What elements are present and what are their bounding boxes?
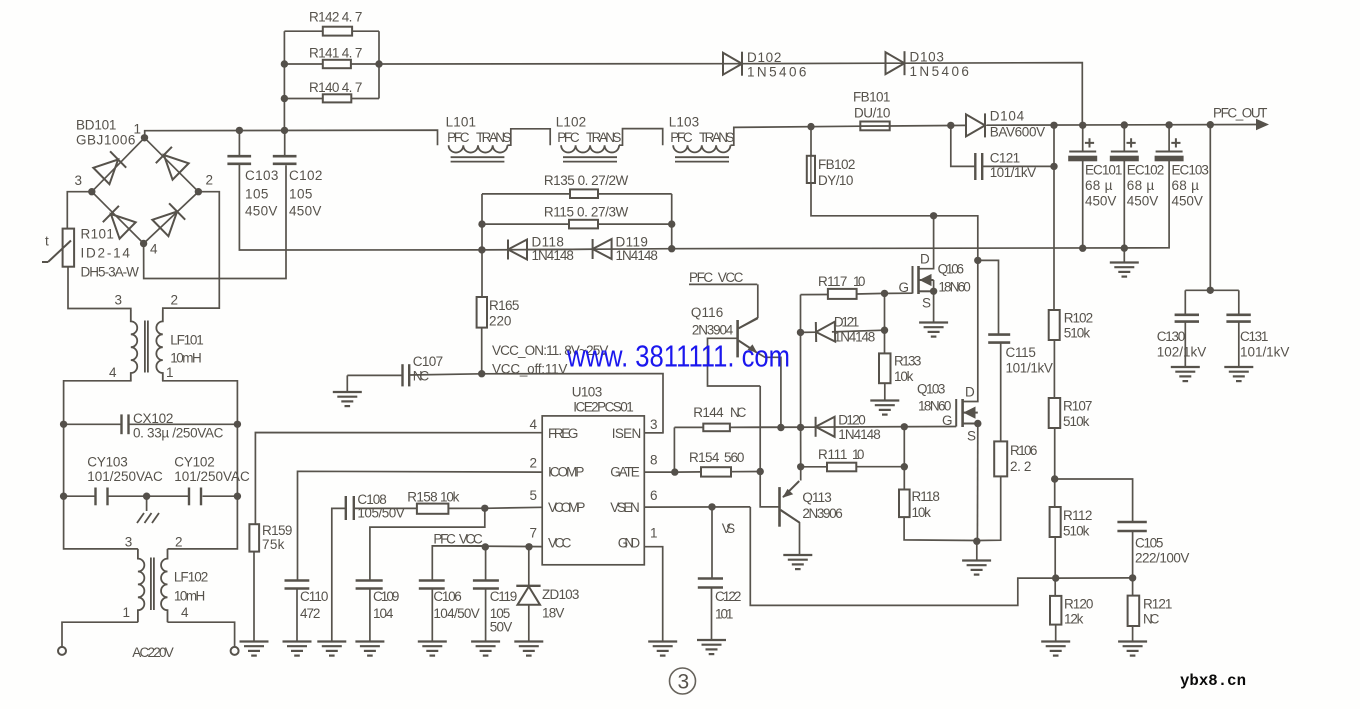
- wire D121 line right: [832, 330, 885, 332]
- capacitor C130: [1175, 313, 1199, 316]
- zener ZD103: [516, 585, 540, 587]
- svg-text:50V: 50V: [490, 620, 513, 635]
- resistor R111: [827, 463, 856, 472]
- junction GATE pin: [671, 468, 678, 475]
- ground C110: [283, 642, 312, 656]
- terminal AC right: [231, 647, 239, 655]
- svg-text:1: 1: [166, 365, 174, 380]
- wire EC102 bottom stem: [1123, 161, 1125, 248]
- wire FREG pin4 line to R159: [255, 433, 542, 525]
- wire GATE pin8 stub: [644, 471, 675, 473]
- resistor R159: [249, 524, 259, 551]
- svg-text:PFC: PFC: [670, 130, 693, 145]
- wire R165 column shunt left rail: [481, 194, 483, 297]
- capacitor C115: [988, 333, 1010, 336]
- wire R121 gnd stem: [1132, 626, 1134, 641]
- svg-text:101: 101: [715, 607, 734, 622]
- wire left rail of R140-R142: [283, 31, 285, 130]
- wire node2 to LF101 pin2: [163, 192, 220, 311]
- svg-text:ID2-14: ID2-14: [81, 246, 131, 261]
- wire R135 line: [482, 193, 570, 195]
- svg-text:ZD103: ZD103: [542, 587, 580, 602]
- junction shunt right D119: [668, 245, 675, 252]
- svg-text:C109: C109: [373, 589, 400, 604]
- capacitor C108: [345, 496, 347, 520]
- svg-text:TRANS: TRANS: [476, 130, 512, 145]
- diode D103 1N5406: [886, 51, 905, 75]
- svg-text:R165: R165: [489, 298, 520, 313]
- junction C115 Q103 drain: [974, 257, 981, 264]
- svg-text:U103: U103: [572, 385, 603, 400]
- svg-text:1N5406: 1N5406: [910, 64, 970, 79]
- svg-text:ICOMP: ICOMP: [548, 465, 585, 480]
- junction D121 left: [797, 329, 804, 336]
- resistor R102: [1049, 310, 1060, 340]
- svg-text:1: 1: [134, 122, 142, 137]
- svg-text:Q103: Q103: [917, 382, 946, 397]
- svg-text:7: 7: [530, 526, 538, 541]
- junction FB102 rail: [807, 123, 814, 130]
- svg-text:GND: GND: [618, 536, 641, 551]
- wire GND pin1 to ground: [644, 547, 662, 641]
- capacitor C131: [1226, 313, 1250, 316]
- wire D118 D119 line segments: [527, 248, 593, 250]
- wire R144 right to D120 line to Q103 gate: [730, 426, 956, 429]
- wire Q113 collector to gnd: [781, 511, 799, 554]
- svg-text:EC102: EC102: [1127, 163, 1165, 178]
- capacitor C103: [227, 155, 251, 158]
- wire rail L102 to L103 step: [619, 129, 663, 146]
- electrolytic EC102: [1111, 151, 1138, 153]
- svg-text:R158: R158: [407, 490, 438, 505]
- wire rail L101 to L102 step: [507, 129, 550, 145]
- junction Q103 source: [974, 420, 981, 427]
- ground Q103 source: [962, 561, 991, 575]
- svg-text:C131: C131: [1240, 329, 1269, 344]
- junction CX102 left: [60, 421, 67, 428]
- junction EC102 rail: [1121, 121, 1128, 128]
- bridge rectifier BD101 diode bottom-right: [152, 203, 185, 236]
- svg-text:18N60: 18N60: [918, 399, 952, 414]
- svg-text:3: 3: [75, 173, 83, 188]
- svg-text:C106: C106: [433, 589, 462, 604]
- wire R107 to dot: [1054, 428, 1056, 507]
- svg-text:1: 1: [650, 526, 658, 541]
- wire FB102 bottom to Q106 drain junction: [811, 183, 978, 260]
- junction VS VSEN: [708, 503, 715, 510]
- wire EC101 bottom stem: [1082, 161, 1084, 248]
- wire Q103 source vertical: [976, 424, 978, 542]
- wire ZD103 stem: [528, 547, 530, 585]
- svg-text:12k: 12k: [1064, 612, 1084, 627]
- wire Q116 base net riser to Q113 base: [760, 386, 778, 507]
- junction CY center: [143, 493, 150, 500]
- svg-text:560: 560: [724, 450, 745, 465]
- wire node3 to R101: [67, 192, 92, 229]
- svg-text:10k: 10k: [440, 490, 460, 505]
- wire LF101 pin1 to right filter rail: [163, 381, 238, 549]
- svg-text:18N60: 18N60: [938, 280, 971, 295]
- electrolytic EC101: [1069, 151, 1096, 153]
- ground Q113 collector: [783, 555, 812, 569]
- svg-text:FB102: FB102: [818, 157, 856, 172]
- terminal AC left: [58, 647, 66, 655]
- svg-text:1N4148: 1N4148: [834, 330, 876, 345]
- wire ISEN pin3 stub: [644, 432, 663, 434]
- svg-text:R102: R102: [1064, 311, 1094, 326]
- svg-text:0. 33µ /250VAC: 0. 33µ /250VAC: [133, 426, 224, 441]
- svg-text:R117: R117: [818, 274, 848, 289]
- junction R118 top: [901, 423, 908, 430]
- junction Q106 source: [930, 288, 937, 295]
- wire FB102 stem from rail: [810, 127, 812, 156]
- resistor R154: [701, 467, 731, 476]
- ground C131: [1224, 367, 1253, 381]
- svg-text:L103: L103: [669, 115, 700, 130]
- wire C130 C131 tee: [1185, 289, 1239, 291]
- svg-text:R111: R111: [818, 447, 848, 462]
- svg-text:D: D: [965, 385, 975, 400]
- resistor R121: [1128, 596, 1140, 626]
- diode D119 1N4148: [593, 239, 612, 259]
- transistor Q116 2N3904: [736, 320, 739, 357]
- wire CX102 lead right: [130, 423, 238, 425]
- wire C106 gnd stem: [431, 590, 433, 642]
- junction EC101 rail: [1079, 122, 1086, 129]
- ground R133: [870, 401, 899, 415]
- wire bridge arm N3-N4: [92, 192, 144, 244]
- wire R154 right: [731, 471, 760, 473]
- capacitor C107: [401, 364, 403, 386]
- svg-text:VCC_off:11V: VCC_off:11V: [492, 362, 568, 377]
- wire C107 gnd stem: [346, 375, 348, 391]
- svg-text:C119: C119: [490, 589, 518, 604]
- junction shunt left D118: [478, 246, 485, 253]
- wire main top rail from bridge node1 to L101: [145, 130, 438, 145]
- thermistor R101: [63, 229, 75, 267]
- svg-text:R154: R154: [689, 450, 720, 465]
- wire Q116 base path: [708, 338, 761, 386]
- svg-text:L102: L102: [556, 115, 587, 130]
- junction C106 VCC: [482, 543, 489, 550]
- wire C105 top branch: [1055, 479, 1133, 521]
- wire VCC pin7 line: [432, 546, 542, 580]
- svg-text:ybx8.cn: ybx8.cn: [1180, 672, 1246, 690]
- svg-text:GBJ1006: GBJ1006: [76, 133, 136, 148]
- svg-text:2N3906: 2N3906: [802, 506, 843, 521]
- junction shunt left R115: [478, 220, 485, 227]
- inductor LF102 common mode choke: [138, 549, 144, 622]
- junction source ground: [973, 538, 980, 545]
- wire EC101 stem: [1082, 125, 1084, 151]
- svg-text:8: 8: [650, 453, 658, 468]
- svg-text:R144: R144: [693, 405, 724, 420]
- bridge rectifier BD101 diode top-right: [156, 147, 189, 180]
- svg-text:FB101: FB101: [853, 90, 891, 105]
- svg-text:VS: VS: [722, 521, 736, 536]
- svg-text:2. 2: 2. 2: [1010, 459, 1032, 474]
- wire EC103 stem: [1168, 125, 1170, 151]
- junction R107 C105: [1051, 475, 1058, 482]
- junction R141 left: [281, 60, 288, 67]
- resistor R141: [323, 60, 351, 68]
- capacitor C121: [974, 153, 976, 180]
- svg-text:DU/10: DU/10: [854, 106, 891, 121]
- wire C130 stem: [1184, 290, 1186, 314]
- svg-text:510k: 510k: [1063, 524, 1090, 539]
- svg-text:LF101: LF101: [170, 333, 204, 348]
- resistor R135: [570, 189, 598, 198]
- svg-text:R140 4. 7: R140 4. 7: [309, 80, 363, 95]
- junction C121 right: [1050, 163, 1057, 170]
- diode D102 1N5406: [723, 52, 742, 76]
- wire LF101 pin4 to left filter rail: [64, 381, 138, 549]
- junction R140 left: [281, 95, 288, 102]
- svg-text:510k: 510k: [1064, 326, 1091, 341]
- svg-text:105/50V: 105/50V: [357, 506, 405, 521]
- svg-text:2: 2: [206, 173, 214, 188]
- svg-text:220: 220: [489, 314, 512, 329]
- wire EC102 gnd stem: [1123, 248, 1125, 262]
- svg-text:2: 2: [171, 293, 179, 308]
- svg-text:101/1kV: 101/1kV: [990, 165, 1037, 180]
- junction CY103 left: [60, 493, 67, 500]
- ground C109: [355, 642, 384, 656]
- node 4 bridge: [140, 240, 147, 247]
- ground ZD103: [514, 642, 543, 656]
- capacitor C109: [356, 579, 383, 582]
- svg-text:C130: C130: [1157, 329, 1186, 344]
- wire R133 riser: [884, 293, 886, 353]
- ground C107: [333, 392, 362, 406]
- ground C122: [697, 640, 726, 654]
- junction R165 ISEN: [478, 370, 485, 377]
- ground C108: [317, 642, 346, 656]
- wire y578 between R112 dot and C105 dot: [1056, 577, 1133, 579]
- svg-text:104/50V: 104/50V: [433, 606, 480, 621]
- wire R165 bottom to ISEN line: [481, 328, 483, 374]
- resistor R158: [417, 504, 449, 514]
- resistor R115: [569, 220, 598, 229]
- wire R144 lead left: [674, 426, 703, 428]
- svg-text:EC101: EC101: [1085, 163, 1123, 178]
- junction EC103 rail: [1165, 121, 1172, 128]
- svg-text:101/1kV: 101/1kV: [1006, 361, 1054, 376]
- svg-text:R101: R101: [81, 227, 115, 242]
- svg-text:DY/10: DY/10: [818, 173, 854, 188]
- wire D121 line left: [801, 331, 817, 333]
- wire CY103-CY102 center: [109, 495, 189, 497]
- wire C105 bottom stem: [1132, 532, 1134, 578]
- svg-text:3: 3: [678, 671, 690, 694]
- wire EC102 stem: [1123, 125, 1125, 151]
- svg-text:ISEN: ISEN: [612, 426, 642, 441]
- wire VSEN sense path: [750, 507, 1055, 605]
- mosfet Q103 18N60: [955, 399, 957, 427]
- resistor R112: [1050, 507, 1061, 537]
- svg-text:68 µ: 68 µ: [1127, 178, 1155, 193]
- bridge rectifier BD101 diode top-left: [93, 151, 126, 184]
- wire Q106 drain vertical: [919, 216, 934, 269]
- junction R111 right: [901, 463, 908, 470]
- capacitor C106: [419, 579, 445, 582]
- wire R118 riser: [903, 427, 905, 490]
- svg-text:NC: NC: [730, 405, 747, 420]
- wire top D102 D103 line: [379, 63, 1082, 126]
- svg-text:101/1kV: 101/1kV: [1240, 345, 1290, 360]
- wire CY102 lead right: [203, 495, 238, 497]
- wire Q103 drain vertical: [963, 260, 978, 401]
- wire C119 gnd stem: [485, 590, 487, 642]
- capacitor C119: [473, 579, 499, 582]
- svg-text:R115 0. 27/3W: R115 0. 27/3W: [544, 205, 629, 220]
- svg-text:104: 104: [373, 606, 394, 621]
- wire Q116 emitter to gate line: [755, 351, 781, 427]
- capacitor CY103: [94, 488, 96, 506]
- underline PFC_VCC upper: [689, 283, 757, 285]
- svg-text:R118: R118: [912, 489, 941, 504]
- junction C103 rail: [236, 127, 243, 134]
- wire R140 leads: [284, 98, 322, 100]
- svg-text:R107: R107: [1063, 399, 1093, 414]
- junction R154 right: [757, 468, 764, 475]
- resistor R120: [1050, 596, 1061, 625]
- inductor L101: [449, 145, 508, 152]
- svg-text:G: G: [899, 280, 910, 295]
- svg-text:4: 4: [109, 365, 117, 380]
- capacitor C102: [273, 155, 297, 158]
- junction R102 rail: [1050, 122, 1057, 129]
- svg-text:450V: 450V: [1085, 194, 1117, 209]
- junction R141 right: [375, 60, 382, 67]
- ground C119: [471, 642, 500, 656]
- junction ZD103 VCC: [525, 543, 532, 550]
- wire node4 down to C102 bottom line: [144, 165, 286, 278]
- wire C122 gnd stem: [711, 589, 713, 640]
- wire CX102 lead left: [64, 423, 121, 425]
- capacitor C105: [1117, 521, 1146, 524]
- svg-text:3: 3: [125, 535, 133, 550]
- junction CY102 right: [234, 493, 241, 500]
- svg-text:R159: R159: [262, 523, 293, 538]
- svg-text:1N4148: 1N4148: [838, 427, 881, 442]
- wire R102 to R107: [1053, 340, 1055, 398]
- svg-text:t: t: [45, 234, 49, 249]
- svg-text:450V: 450V: [289, 204, 322, 219]
- junction R111 left: [797, 463, 804, 470]
- resistor R133: [879, 353, 891, 383]
- svg-text:18V: 18V: [542, 606, 565, 621]
- svg-text:NC: NC: [413, 369, 430, 384]
- svg-text:D120: D120: [838, 413, 866, 428]
- svg-text:C122: C122: [715, 589, 742, 604]
- svg-text:D102: D102: [747, 50, 782, 65]
- svg-text:Q116: Q116: [691, 305, 724, 320]
- ground U103 GND pin: [648, 642, 677, 656]
- wire C103 bottom to long gnd-return line to EC103: [239, 161, 1169, 250]
- wire bridge arm N3-N1: [92, 138, 145, 192]
- svg-text:C103: C103: [245, 168, 279, 183]
- wire R144 R154 left rail: [673, 427, 675, 472]
- wire VSEN pin6 line: [644, 506, 750, 508]
- svg-text:R121: R121: [1143, 597, 1173, 612]
- electrolytic EC103: [1156, 151, 1183, 153]
- wire C103 stem top: [238, 130, 240, 156]
- resistor R117: [828, 289, 857, 299]
- bridge rectifier BD101 diode bottom-left: [103, 206, 136, 239]
- svg-text:C102: C102: [289, 168, 323, 183]
- svg-text:68 µ: 68 µ: [1085, 178, 1113, 193]
- svg-text:105: 105: [245, 187, 269, 202]
- wire C102 stem top: [284, 130, 286, 156]
- junction R112 R120: [1052, 574, 1059, 581]
- wire bridge arm N4-N2: [144, 192, 199, 244]
- junction shunt right R115: [668, 220, 675, 227]
- junction Q113 emitter gate line: [797, 424, 804, 431]
- diode D118 1N4148: [508, 240, 527, 260]
- wire C109 gnd stem: [369, 590, 371, 642]
- svg-text:1N4148: 1N4148: [532, 248, 575, 263]
- junction EC101 bottom: [1079, 245, 1086, 252]
- svg-text:4: 4: [150, 242, 158, 257]
- ground R121: [1118, 642, 1147, 656]
- node 2 bridge: [195, 188, 202, 195]
- capacitor C122: [698, 577, 723, 580]
- svg-text:10k: 10k: [894, 369, 914, 384]
- diode D104 BAV600V: [966, 113, 985, 137]
- wire C108 left to gnd: [332, 508, 346, 641]
- wire VS C122 stem: [711, 507, 713, 578]
- svg-text:4: 4: [530, 417, 538, 432]
- wire ZD103 gnd stem: [528, 605, 530, 641]
- svg-text:BAV600V: BAV600V: [990, 125, 1046, 140]
- svg-text:75k: 75k: [262, 537, 285, 552]
- junction C105 R121: [1129, 574, 1136, 581]
- ground C130: [1171, 367, 1200, 381]
- svg-text:C110: C110: [300, 589, 329, 604]
- ground C106: [418, 642, 447, 656]
- svg-text:450V: 450V: [245, 204, 278, 219]
- svg-text:GATE: GATE: [610, 465, 640, 480]
- svg-text:10k: 10k: [912, 505, 932, 520]
- svg-text:Q106: Q106: [938, 262, 965, 277]
- svg-text:472: 472: [300, 606, 321, 621]
- wire R120 gnd stem: [1055, 625, 1057, 641]
- svg-text:S: S: [967, 429, 976, 444]
- wire R115 line: [482, 223, 569, 225]
- svg-text:ICE2PCS01: ICE2PCS01: [573, 400, 634, 415]
- wire D120 line left: [730, 426, 816, 428]
- ground R120: [1041, 642, 1070, 656]
- resistor R140: [323, 94, 352, 102]
- wire R133 gnd stem: [884, 383, 886, 400]
- wire Q113 emitter riser: [800, 295, 802, 481]
- svg-text:2: 2: [175, 535, 183, 550]
- svg-text:4: 4: [181, 605, 189, 620]
- wire R102 column top: [1053, 125, 1055, 310]
- wire rail D104 to arrow end: [987, 124, 1259, 127]
- junction R117 gate: [881, 290, 888, 297]
- svg-text:CY102: CY102: [174, 455, 215, 470]
- svg-text:2N3904: 2N3904: [692, 323, 734, 338]
- chassis ground slashes: [137, 513, 159, 523]
- svg-text:TRANS: TRANS: [586, 130, 622, 145]
- svg-text:S: S: [922, 296, 931, 311]
- svg-text:3: 3: [115, 293, 123, 308]
- wire junction to C115 column: [978, 260, 999, 334]
- svg-text:PFC: PFC: [557, 130, 580, 145]
- resistor R106: [994, 441, 1007, 476]
